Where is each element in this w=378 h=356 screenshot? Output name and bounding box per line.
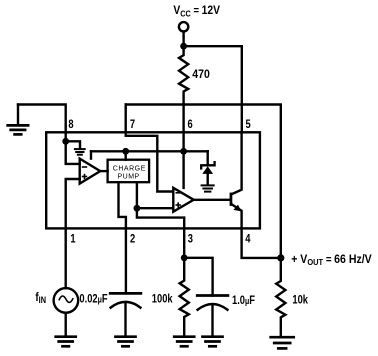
ground R3 <box>271 337 294 348</box>
wire pin 1 to source <box>64 228 66 288</box>
wire pin 4 to output node <box>242 228 281 258</box>
sine symbol <box>59 296 73 302</box>
op-amp U1A input comparator <box>80 159 101 184</box>
wire rail to charge pump top <box>124 151 126 159</box>
junction output node <box>277 254 284 261</box>
resistor R1 470 <box>179 46 188 132</box>
wire C2 to ground <box>211 306 213 336</box>
plus sign U1A <box>83 175 87 179</box>
transistor Q1 collector <box>232 132 241 194</box>
wire rail to zener <box>206 151 208 164</box>
wire comparator output to charge pump <box>100 170 107 172</box>
terminal VCC <box>179 22 188 31</box>
svg-text:0.02μF: 0.02μF <box>79 293 108 306</box>
wire node to op-amp plus input <box>137 207 173 209</box>
wire pin 8 internal <box>64 132 66 141</box>
wire zener to ground <box>206 174 208 184</box>
plus sign U1B <box>176 203 180 207</box>
svg-text:+ VOUT = 66 Hz/V: + VOUT = 66 Hz/V <box>291 253 372 267</box>
wire node to capacitor C2 <box>184 258 212 296</box>
ground C2 <box>203 337 223 347</box>
svg-text:10k: 10k <box>292 293 308 306</box>
wire node to comparator minus input <box>66 141 80 164</box>
charge pump block <box>108 160 150 183</box>
ground internal comparator ref <box>75 149 85 155</box>
svg-text:PUMP: PUMP <box>118 173 140 180</box>
IC U1 outline <box>46 132 260 228</box>
svg-text:6: 6 <box>188 118 193 131</box>
resistor R3 10k <box>276 258 285 336</box>
junction rail pin 6 <box>180 148 187 155</box>
transistor Q1 base bar <box>230 193 233 206</box>
wire charge pump to pin 2 <box>119 182 126 228</box>
wire pin 3 to node <box>183 228 185 257</box>
capacitor C1 0.02uF <box>110 293 141 307</box>
resistor R2 100k <box>180 258 189 336</box>
zener diode D1 body <box>202 166 213 174</box>
ground zener <box>202 185 214 191</box>
wire charge pump output <box>136 182 138 208</box>
svg-text:7: 7 <box>130 118 135 131</box>
transistor Q1 emitter arrow <box>234 205 242 212</box>
junction charge pump output node <box>134 205 141 212</box>
ground source <box>56 337 76 347</box>
junction pin 3 node <box>181 254 188 261</box>
svg-text:8: 8 <box>68 118 73 131</box>
transistor Q1 emitter <box>232 205 241 229</box>
op-amp U1B <box>173 188 193 212</box>
svg-text:5: 5 <box>246 118 251 131</box>
junction pin 8 node <box>62 138 69 145</box>
wire pin 7 to output node (top route) <box>126 105 281 258</box>
capacitor C2 1.0uF <box>197 296 228 310</box>
wire rail to op-amp top <box>182 151 184 188</box>
wire capacitor to ground <box>124 304 126 336</box>
junction VCC node <box>180 43 187 50</box>
svg-text:1: 1 <box>70 232 75 245</box>
minus sign U1B <box>176 192 180 194</box>
wire VCC node to pin 5 <box>184 46 242 132</box>
svg-text:CHARGE: CHARGE <box>113 165 146 172</box>
ground C1 <box>116 337 136 347</box>
zener diode D1 cathode <box>201 162 214 168</box>
wire node to pin 3 <box>137 208 184 228</box>
wire pin 7 to op-amp minus input <box>126 105 174 192</box>
wire comparator plus input to pin 1 <box>66 179 80 228</box>
svg-text:100k: 100k <box>152 292 173 305</box>
wire ground to pin 8 <box>18 105 66 133</box>
wire pin 2 to capacitor <box>125 228 127 293</box>
svg-text:470: 470 <box>192 68 210 81</box>
source fIN <box>54 288 79 313</box>
ground top-left <box>8 105 28 135</box>
minus sign U1A <box>83 166 87 168</box>
wire source to ground <box>64 313 66 336</box>
wire rail to comparator top <box>90 151 92 158</box>
svg-text:4: 4 <box>245 232 250 245</box>
wire node to internal ground <box>66 141 80 147</box>
svg-text:3: 3 <box>188 232 193 245</box>
svg-text:1.0μF: 1.0μF <box>232 294 255 307</box>
junction rail charge pump <box>122 148 129 155</box>
svg-text:2: 2 <box>130 232 135 245</box>
ground R2 <box>174 337 194 347</box>
wire VCC terminal to junction <box>182 32 184 47</box>
wire internal VCC rail <box>91 150 208 152</box>
wire op-amp output to transistor base <box>194 199 230 201</box>
wire pin 6 internal <box>182 132 184 151</box>
